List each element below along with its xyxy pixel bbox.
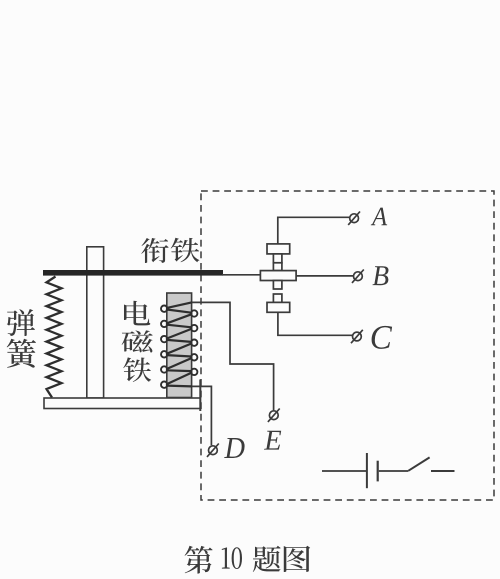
label 铁 (electromagnet text 3) xyxy=(123,357,151,382)
top contact plate xyxy=(267,244,290,254)
caption 第 xyxy=(185,546,213,574)
support post xyxy=(87,247,104,398)
label 衔 (armature text 1) xyxy=(141,238,168,263)
terminal label E xyxy=(264,431,281,450)
label 簧 (spring text 2) xyxy=(7,339,36,368)
switch blade xyxy=(408,457,429,470)
bottom contact stub xyxy=(273,294,282,302)
battery long plate xyxy=(366,453,368,488)
terminal label D xyxy=(224,438,244,458)
terminal label B xyxy=(372,266,388,285)
caption number 10 xyxy=(222,547,242,569)
movable contact upper stub xyxy=(273,263,282,271)
label 磁 (electromagnet text 2) xyxy=(122,330,153,352)
battery short plate xyxy=(377,461,379,482)
bottom contact plate xyxy=(267,302,290,312)
base plate xyxy=(44,398,200,409)
label 电 (electromagnet text 1) xyxy=(124,301,150,326)
wire coil bottom to terminal D xyxy=(192,386,212,445)
dashed box (control circuit boundary) xyxy=(201,191,494,500)
wire battery to switch xyxy=(379,470,409,472)
terminal label C xyxy=(372,326,393,349)
wire top contact to terminal A xyxy=(278,217,350,244)
wire switch right stub xyxy=(431,470,455,472)
movable contact lower stub xyxy=(273,281,282,290)
movable contact bar xyxy=(260,271,296,281)
wire coil top to terminal E xyxy=(192,302,274,410)
terminal C xyxy=(351,330,363,343)
terminal E xyxy=(268,409,280,422)
wire battery left xyxy=(322,470,366,472)
terminal B xyxy=(352,270,364,283)
armature bar (衔铁) xyxy=(43,270,223,276)
top contact stub xyxy=(273,254,282,263)
terminal label A xyxy=(371,208,387,226)
wire bottom contact to terminal C xyxy=(278,312,352,335)
caption 题 xyxy=(253,546,281,572)
coil winding xyxy=(167,302,192,386)
terminal D xyxy=(207,444,219,457)
wire movable contact to terminal B xyxy=(296,275,353,277)
label 弹 (spring text 1) xyxy=(7,309,35,336)
electromagnet core xyxy=(167,293,192,398)
wire armature to movable contact xyxy=(222,274,261,276)
coil edge loops xyxy=(161,306,197,388)
label 铁 (armature text 2) xyxy=(171,238,200,262)
spring (弹簧) xyxy=(47,277,62,398)
terminal A xyxy=(348,212,360,225)
caption 图 xyxy=(284,546,310,572)
base end bracket xyxy=(199,380,201,412)
